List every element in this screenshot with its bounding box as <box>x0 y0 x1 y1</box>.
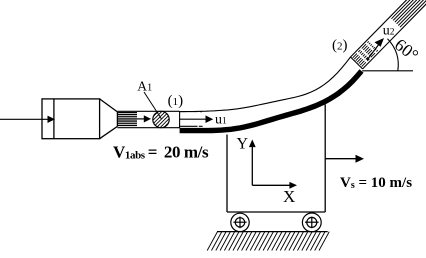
svg-text:X: X <box>283 187 295 206</box>
svg-text:(1): (1) <box>168 93 184 109</box>
svg-text:Vs = 10 m/s: Vs = 10 m/s <box>340 175 412 191</box>
svg-text:(2): (2) <box>332 37 348 53</box>
svg-text:Y: Y <box>237 136 249 153</box>
